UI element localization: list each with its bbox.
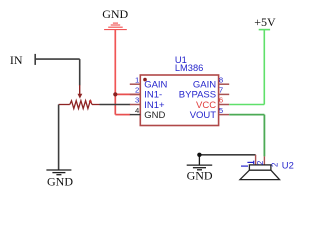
svg-text:8: 8 xyxy=(219,75,223,84)
svg-text:7: 7 xyxy=(219,86,223,95)
svg-text:+5V: +5V xyxy=(254,15,276,29)
svg-text:GND: GND xyxy=(102,7,128,21)
svg-text:2: 2 xyxy=(135,86,139,95)
svg-text:IN: IN xyxy=(10,53,23,67)
svg-text:2: 2 xyxy=(256,160,265,165)
svg-text:4: 4 xyxy=(135,106,140,115)
svg-text:2: 2 xyxy=(271,162,280,167)
svg-text:GND: GND xyxy=(47,175,73,189)
svg-text:3: 3 xyxy=(135,96,139,105)
svg-text:5: 5 xyxy=(219,106,223,115)
svg-text:1: 1 xyxy=(135,75,139,84)
svg-text:6: 6 xyxy=(219,96,223,105)
svg-text:VOUT: VOUT xyxy=(190,110,217,121)
svg-text:LM386: LM386 xyxy=(175,63,203,73)
svg-text:GND: GND xyxy=(144,110,165,121)
svg-text:GND: GND xyxy=(187,168,213,182)
svg-text:U2: U2 xyxy=(282,159,294,170)
